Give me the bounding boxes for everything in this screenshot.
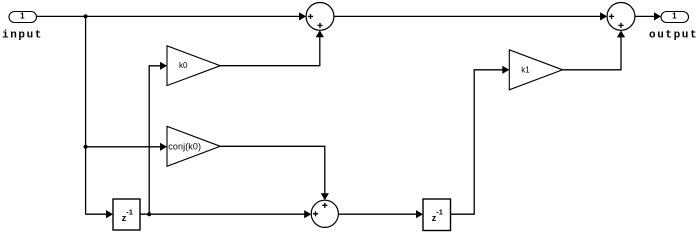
wire: sum2 to output port <box>635 12 661 20</box>
output port Out1 <box>661 12 689 23</box>
wire: branch to delay z1 <box>86 210 113 218</box>
svg-text:1: 1 <box>672 12 677 21</box>
delay z2 <box>423 199 451 231</box>
wire: k1 output to sum2 bottom <box>563 30 626 69</box>
wire: input to sum1 <box>37 12 307 20</box>
junction: conj(k0) branch <box>84 145 88 149</box>
wire: conj(k0) output to sum3 top <box>220 146 329 200</box>
gain k0 <box>167 46 220 86</box>
svg-text:k0: k0 <box>179 61 188 70</box>
sum A1 (top-middle) <box>306 3 334 31</box>
sum A2 (top-right) <box>607 3 635 31</box>
input port In1 <box>9 12 37 23</box>
delay z1 <box>113 199 140 230</box>
svg-text:-1: -1 <box>126 208 133 217</box>
wire: sum3 to delay z2 <box>338 210 423 218</box>
wire: branch to conj(k0) <box>86 143 167 151</box>
wire: main vertical branch down <box>85 16 87 214</box>
wire: sum1 to sum2 <box>334 12 607 20</box>
gain conj(k0) <box>167 126 220 166</box>
wire: k0 output to sum1 bottom <box>220 30 324 65</box>
wire: z2 output up to gain k1 <box>451 66 510 215</box>
gain k1 <box>509 50 562 90</box>
svg-text:conj(k0): conj(k0) <box>168 141 201 151</box>
svg-text:k1: k1 <box>521 66 530 75</box>
svg-text:1: 1 <box>20 12 25 21</box>
svg-text:output: output <box>649 30 698 42</box>
junction: z1 output branch <box>147 212 151 216</box>
wire: z1 output up to gain k0 <box>149 62 167 215</box>
svg-text:-1: -1 <box>436 208 443 217</box>
sum A3 (bottom-middle) <box>311 200 338 227</box>
wire: z1 output to sum3 <box>140 210 311 218</box>
junction: input branch <box>84 14 88 18</box>
svg-text:input: input <box>2 30 43 42</box>
